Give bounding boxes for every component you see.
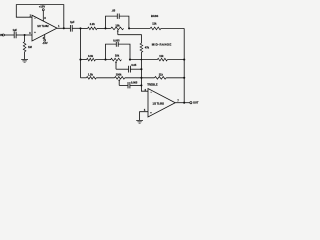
svg-text:1μF: 1μF bbox=[70, 21, 75, 24]
wire U2 output bbox=[175, 102, 190, 104]
wire C6 to summing bus bbox=[130, 84, 141, 86]
resistor R4 11k bass to feedback rail bbox=[150, 27, 161, 30]
feedback wire U1 output to inverting input bbox=[16, 5, 64, 29]
resistor R12 11k treble to feedback rail bbox=[155, 77, 167, 80]
junction summing bus / C5 bbox=[140, 68, 142, 70]
svg-text:10k: 10k bbox=[115, 53, 120, 57]
wire node to R1 bbox=[24, 35, 26, 42]
potentiometer R3 10k bass bbox=[111, 27, 124, 30]
resistor R5 3.3k mid series bbox=[87, 58, 96, 61]
potentiometer R6 wiper arrow bbox=[115, 62, 117, 69]
svg-text:11k: 11k bbox=[159, 72, 164, 76]
wire R4 to right rail bbox=[161, 27, 184, 29]
wire summing bus vertical to U2 inverting input bbox=[141, 52, 148, 91]
capacitor C5 0.05 mid wiper bbox=[129, 66, 131, 73]
svg-text:1.5k: 1.5k bbox=[88, 72, 94, 76]
resistor R7 11k mid to feedback rail bbox=[157, 58, 167, 61]
svg-text:1μF: 1μF bbox=[13, 29, 18, 32]
wire riser right of C4 bbox=[118, 44, 130, 60]
wire mid RC to R7 bbox=[130, 59, 157, 61]
node mid RC left junction bbox=[104, 59, 106, 61]
wire R1 to ground bbox=[24, 52, 26, 60]
node feedback tap junction bbox=[63, 27, 65, 29]
resistor R1 1M to ground bbox=[23, 42, 26, 52]
svg-text:100k: 100k bbox=[116, 72, 122, 76]
capacitor C6 0.005 treble wiper bbox=[128, 82, 130, 88]
svg-text:BASS: BASS bbox=[151, 14, 158, 18]
potentiometer R3 wiper arrow bbox=[117, 31, 119, 35]
svg-text:1/2 TL082: 1/2 TL082 bbox=[37, 25, 49, 28]
wire R12 to right rail bbox=[166, 77, 184, 79]
junction summing bus / mid line bbox=[141, 59, 143, 61]
junction summing bus / treble line bbox=[140, 77, 142, 79]
op-amp U1 1/2 TL082 triangle bbox=[32, 15, 57, 41]
resistor R10 1.5k treble series bbox=[86, 77, 96, 80]
resistor R9 47k wiper to summing bus bbox=[140, 43, 143, 52]
wire node L vertical bus bbox=[80, 28, 82, 77]
capacitor C3 0.05 bass bbox=[117, 14, 119, 19]
node bass RC left junction bbox=[104, 27, 106, 29]
wire riser left of C4 bbox=[106, 44, 117, 60]
wire treble pot to R12 bbox=[125, 77, 155, 79]
wire input to C1 bbox=[4, 34, 14, 36]
svg-text:-15V: -15V bbox=[42, 41, 48, 45]
wire node L to R5 bbox=[81, 59, 87, 61]
node L top junction bbox=[79, 27, 81, 29]
svg-text:1/2 TL082: 1/2 TL082 bbox=[152, 103, 164, 106]
wire riser right of C3 bbox=[119, 16, 129, 28]
input terminal IN bbox=[2, 34, 4, 36]
svg-text:2.2k: 2.2k bbox=[90, 22, 96, 26]
svg-text:10k: 10k bbox=[115, 24, 120, 28]
wire R10 to treble pot bbox=[96, 77, 114, 79]
svg-text:IN: IN bbox=[0, 33, 3, 37]
junction rail / output bbox=[183, 102, 185, 104]
svg-text:47k: 47k bbox=[145, 45, 150, 49]
wire bass RC to R4 bbox=[129, 27, 150, 29]
svg-text:0.005: 0.005 bbox=[113, 40, 120, 43]
svg-text:11k: 11k bbox=[152, 21, 157, 25]
wire node L to R2 bbox=[81, 27, 88, 29]
wire U1 output to C2 bbox=[57, 27, 70, 29]
potentiometer R11 wiper arrow bbox=[118, 80, 120, 85]
node mid RC right junction bbox=[129, 59, 131, 61]
wire riser left of C3 bbox=[106, 16, 118, 28]
wire mid wiper to C5 bbox=[116, 68, 128, 70]
ground under U2 pin 5 bbox=[136, 120, 143, 123]
potentiometer R11 100k treble bbox=[115, 77, 125, 80]
junction rail / mid line bbox=[183, 59, 185, 61]
ground under R1 bbox=[21, 60, 28, 63]
junction rail / treble line bbox=[183, 77, 185, 79]
junction summing bus / C6 bbox=[140, 84, 142, 86]
svg-text:OUT: OUT bbox=[193, 101, 199, 105]
svg-text:TREBLE: TREBLE bbox=[147, 83, 158, 87]
node L mid junction bbox=[79, 59, 81, 61]
wire R7 to right rail bbox=[167, 59, 184, 61]
wire +15V to U1 pin 8 bbox=[42, 11, 44, 22]
capacitor C4 0.005 mid bbox=[116, 42, 118, 47]
svg-text:MID-RANGE: MID-RANGE bbox=[152, 42, 172, 46]
wire R2 to bass pot bbox=[97, 27, 111, 29]
wire treble wiper to C6 bbox=[119, 84, 128, 86]
svg-text:3.3k: 3.3k bbox=[88, 54, 94, 58]
wire node L elbow to R10 bbox=[81, 77, 87, 79]
wire C2 to node L bbox=[72, 27, 80, 29]
svg-text:11k: 11k bbox=[159, 54, 164, 58]
potentiometer R6 10k mid bbox=[111, 58, 122, 61]
op-amp U2 1/2 TL082 triangle bbox=[148, 89, 175, 118]
capacitor C1 1uF input coupling bbox=[14, 32, 16, 38]
wire C1 to op-amp U1 pin 3 bbox=[16, 34, 32, 36]
svg-text:.05: .05 bbox=[112, 8, 116, 12]
svg-text:0.05: 0.05 bbox=[131, 64, 136, 67]
wire U2 pin 5 to ground bbox=[140, 112, 148, 121]
capacitor C2 1uF coupling bbox=[70, 25, 72, 32]
svg-text:+15V: +15V bbox=[39, 5, 45, 9]
wire R5 to mid pot bbox=[95, 59, 111, 61]
svg-text:0.005: 0.005 bbox=[131, 81, 138, 84]
node junction input/R1 bbox=[24, 34, 26, 36]
output terminal OUT bbox=[190, 102, 192, 104]
resistor R2 2.2k bass series bbox=[88, 27, 97, 30]
node bass RC right junction bbox=[128, 27, 130, 29]
wire bass wiper to R9 bbox=[118, 35, 142, 44]
wire U1 pin 4 to -15V bbox=[44, 35, 46, 40]
wire C5 to summing bus bbox=[131, 68, 142, 70]
wire right feedback rail bbox=[183, 28, 185, 102]
